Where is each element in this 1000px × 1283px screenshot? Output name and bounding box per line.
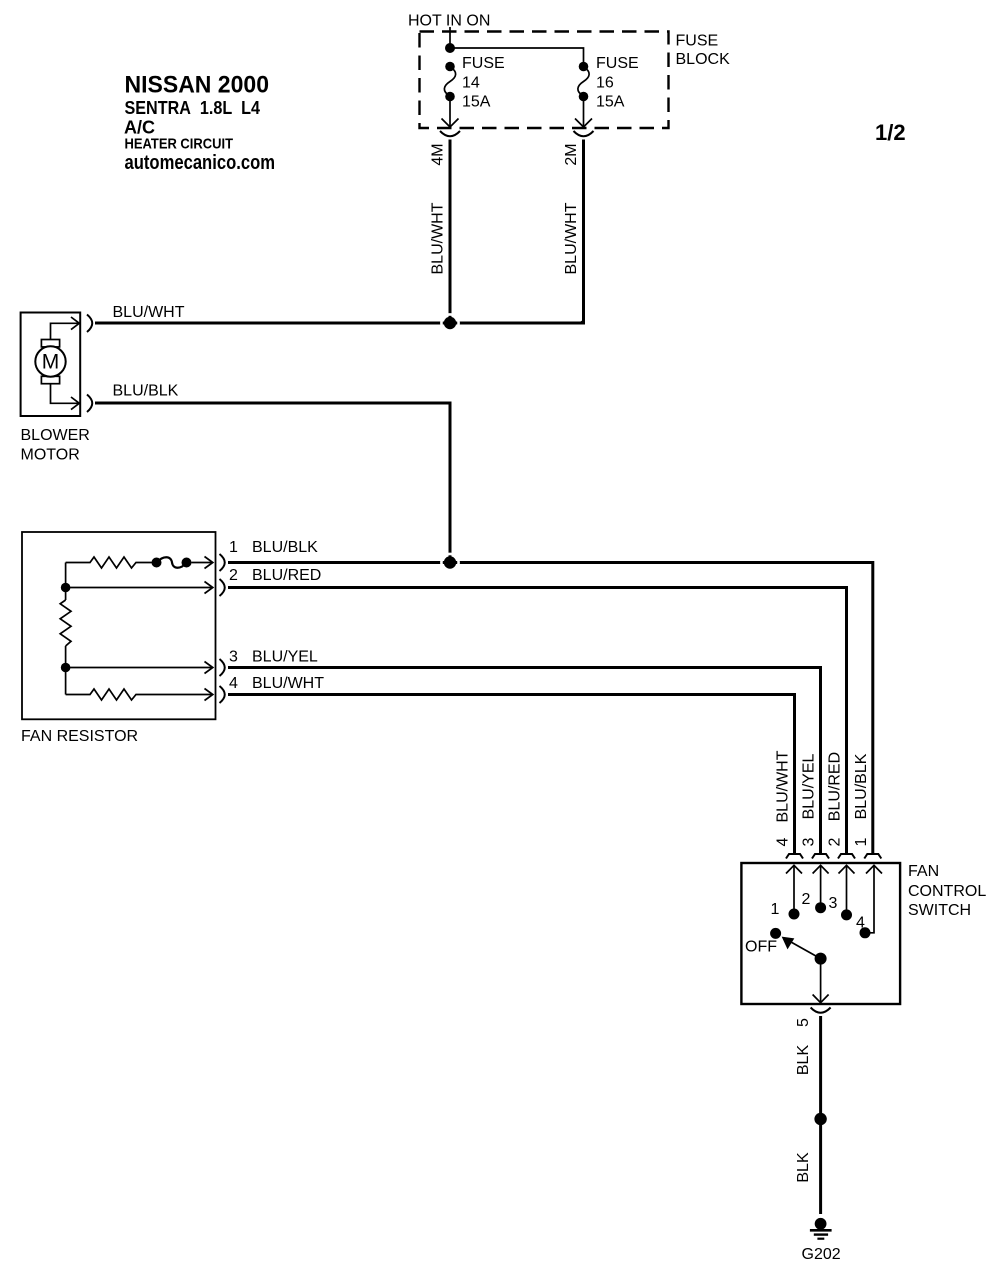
svg-text:BLU/YEL: BLU/YEL	[252, 649, 318, 666]
svg-text:MOTOR: MOTOR	[21, 447, 80, 464]
wire BLU/YEL row 3 to switch	[228, 668, 821, 854]
svg-text:FUSE: FUSE	[462, 55, 505, 72]
connector cup switch pin 2	[838, 854, 855, 859]
blower motor symbol M	[35, 340, 65, 384]
svg-text:1/2: 1/2	[875, 120, 906, 145]
fan resistor box	[22, 532, 216, 719]
svg-text:15A: 15A	[462, 94, 491, 111]
svg-text:M: M	[42, 351, 60, 374]
svg-text:BLU/WHT: BLU/WHT	[775, 750, 792, 822]
wire BLU/RED row 2 to switch	[228, 588, 847, 854]
wire row 2 to pin 2	[66, 582, 213, 594]
svg-text:BLU/WHT: BLU/WHT	[113, 304, 185, 321]
connector cup pin 1	[220, 554, 225, 571]
svg-text:4: 4	[856, 915, 865, 932]
svg-text:2: 2	[827, 837, 844, 846]
wire BLU/WHT from fuse 16 down to corner	[581, 140, 584, 324]
label FUSE BLOCK	[676, 33, 731, 69]
blower motor internal wire to BLU/BLK pin	[51, 384, 80, 410]
svg-text:4M: 4M	[430, 143, 447, 165]
svg-text:BLU/WHT: BLU/WHT	[252, 675, 324, 692]
svg-text:BLU/WHT: BLU/WHT	[430, 202, 447, 274]
switch contact 3 wire with up arrow	[839, 865, 855, 915]
svg-text:NISSAN 2000: NISSAN 2000	[125, 72, 270, 99]
node junction above fuse 14	[445, 43, 455, 53]
node junction row 2 tap	[61, 583, 71, 593]
wire BLK to ground	[819, 1124, 822, 1214]
connector cup switch pin 3	[812, 854, 829, 859]
svg-text:5: 5	[795, 1018, 812, 1027]
svg-text:G202: G202	[802, 1246, 841, 1263]
wire BLK from switch pin 5	[819, 1016, 822, 1114]
wire label 4 BLU/WHT vertical	[775, 750, 792, 846]
fuse F16 15A	[575, 62, 592, 127]
fuse block dashed box	[420, 32, 669, 129]
node junction BLU/BLK row 1	[441, 554, 458, 571]
svg-text:BLU/YEL: BLU/YEL	[801, 753, 818, 819]
svg-text:FUSE: FUSE	[596, 55, 639, 72]
svg-text:BLK: BLK	[795, 1045, 812, 1076]
svg-text:BLU/WHT: BLU/WHT	[563, 202, 580, 274]
resistor in row 1	[66, 557, 153, 568]
node junction BLU/WHT	[441, 314, 458, 331]
svg-text:A/C: A/C	[124, 118, 155, 138]
svg-text:2: 2	[802, 891, 811, 908]
svg-text:HEATER CIRCUIT: HEATER CIRCUIT	[125, 136, 234, 153]
wire row 3 to pin 3	[66, 662, 213, 674]
svg-text:2: 2	[229, 567, 238, 584]
svg-text:2M: 2M	[563, 143, 580, 165]
switch contact 1 dot	[789, 909, 800, 920]
svg-text:3: 3	[229, 649, 238, 666]
wire BLU/BLK blower to fan resistor row 1	[95, 403, 450, 562]
svg-text:3: 3	[829, 895, 838, 912]
svg-text:BLOCK: BLOCK	[676, 51, 731, 68]
wire label 3 BLU/YEL vertical	[801, 753, 818, 846]
switch contact 3 dot	[841, 909, 852, 920]
wire BLU/WHT horizontal blower to fuses	[95, 322, 585, 325]
switch contact 4 dot	[860, 927, 871, 938]
svg-text:FAN RESISTOR: FAN RESISTOR	[21, 728, 138, 745]
connector cup pin 2	[220, 579, 225, 596]
node junction row 3 tap	[61, 663, 71, 673]
svg-text:1: 1	[229, 539, 238, 556]
switch contact 2 wire with up arrow	[813, 865, 829, 907]
svg-text:SWITCH: SWITCH	[908, 902, 971, 919]
svg-text:BLU/BLK: BLU/BLK	[853, 753, 870, 819]
connector cup at blower BLU/WHT pin	[87, 315, 92, 333]
connector cup pin 4	[220, 686, 225, 703]
wire BLU/WHT from fuse 14 down	[449, 140, 452, 324]
fusible link row 1 with dots	[152, 557, 213, 569]
ground G202 symbol	[810, 1218, 832, 1239]
svg-text:3: 3	[801, 837, 818, 846]
fuse F14 15A	[442, 62, 459, 127]
switch contact 2 dot	[815, 902, 826, 913]
svg-text:BLK: BLK	[795, 1152, 812, 1183]
svg-text:15A: 15A	[596, 94, 625, 111]
svg-text:4: 4	[775, 837, 792, 846]
blower motor box	[21, 313, 81, 417]
label FAN CONTROL SWITCH	[908, 863, 986, 919]
connector cup switch pin 1	[864, 854, 881, 859]
fan resistor internal left bus wire	[65, 563, 67, 601]
svg-text:BLOWER: BLOWER	[21, 427, 90, 444]
svg-text:16: 16	[596, 75, 614, 92]
switch rotor arm with arrow	[783, 937, 821, 958]
svg-text:SENTRA 1.8L L4: SENTRA 1.8L L4	[125, 98, 261, 118]
blower motor internal wire to BLU/WHT pin	[51, 317, 80, 340]
connector cup at blower BLU/BLK pin	[87, 395, 92, 413]
resistor in row 4	[66, 689, 213, 701]
connector 2M female cup	[574, 131, 594, 136]
connector cup switch pin 5	[811, 1008, 831, 1013]
svg-text:BLU/BLK: BLU/BLK	[252, 539, 318, 556]
svg-text:BLU/RED: BLU/RED	[252, 567, 321, 584]
switch rotor wire to pin 5 with down arrow	[813, 959, 829, 1003]
svg-text:BLU/RED: BLU/RED	[827, 752, 844, 821]
svg-text:automecanico.com: automecanico.com	[125, 152, 276, 174]
svg-text:14: 14	[462, 75, 480, 92]
wire from HOT IN ON into fuse block	[449, 27, 451, 48]
node junction BLK splice	[814, 1113, 826, 1125]
wire from node to fuse 16	[450, 48, 584, 66]
wire BLU/WHT row 4 to switch	[228, 695, 795, 854]
wire BLU/BLK row 1 to switch	[228, 563, 873, 854]
label BLOWER MOTOR	[21, 427, 90, 464]
wire label 1 BLU/BLK vertical	[853, 753, 870, 846]
svg-text:CONTROL: CONTROL	[908, 883, 986, 900]
svg-text:FUSE: FUSE	[676, 33, 719, 50]
svg-text:BLU/BLK: BLU/BLK	[113, 383, 179, 400]
wire label 2 BLU/RED vertical	[827, 752, 844, 847]
connector cup pin 3	[220, 659, 225, 676]
svg-text:1: 1	[771, 901, 780, 918]
svg-text:FAN: FAN	[908, 863, 939, 880]
switch OFF contact dot	[770, 928, 781, 939]
switch contact 4 wire with up arrow	[865, 865, 882, 933]
switch contact 1 wire with up arrow	[786, 865, 802, 914]
fuse F14 value label	[462, 55, 505, 111]
svg-text:OFF: OFF	[745, 939, 777, 956]
resistor vertical in left bus	[60, 600, 71, 646]
svg-text:4: 4	[229, 675, 238, 692]
connector 4M female cup	[440, 131, 460, 136]
fuse F16 value label	[596, 55, 639, 111]
switch rotor pivot dot	[815, 953, 827, 965]
fan control switch box	[741, 863, 900, 1004]
connector cup switch pin 4	[786, 854, 803, 859]
svg-text:HOT IN ON: HOT IN ON	[408, 13, 490, 30]
svg-text:1: 1	[853, 837, 870, 846]
